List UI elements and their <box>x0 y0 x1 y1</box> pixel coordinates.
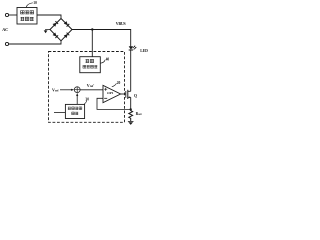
wire bus tap to shutdown box <box>91 30 93 57</box>
svg-text:AC: AC <box>1 27 8 32</box>
svg-text:10: 10 <box>33 1 37 5</box>
dimmer text 可控硅 <box>21 11 34 14</box>
svg-text:Rset: Rset <box>136 112 142 116</box>
svg-text:VBUS: VBUS <box>116 22 126 26</box>
wire AC bottom to bridge bottom <box>9 41 61 44</box>
diode D3 bottom-left <box>53 32 59 38</box>
transistor Q <box>126 90 131 99</box>
LED arrows <box>133 46 137 50</box>
terminal AC bottom <box>5 42 8 45</box>
wire Vref arrow <box>60 89 74 91</box>
diode D4 bottom-right <box>64 33 70 39</box>
leader 30 <box>84 101 86 104</box>
wire LED to drain <box>130 50 132 91</box>
svg-text:Vref: Vref <box>52 87 59 92</box>
wire comp arrow up <box>76 93 78 105</box>
svg-text:Vref′: Vref′ <box>87 83 95 88</box>
wire bridge minus stub <box>46 29 50 32</box>
wire source to sense node <box>130 97 132 111</box>
svg-text:LED: LED <box>140 49 148 53</box>
wire opamp out to gate <box>121 93 126 95</box>
opamp minus <box>104 97 107 99</box>
node sense <box>130 108 132 110</box>
svg-text:40: 40 <box>106 57 110 61</box>
wire VBUS bus <box>72 30 131 47</box>
comp text 温度补偿 <box>68 107 82 110</box>
op-amp OP1 <box>103 85 121 102</box>
leader 10 <box>26 3 33 7</box>
dimmer box U10 <box>17 8 37 25</box>
svg-text:OP1: OP1 <box>107 91 114 95</box>
dashed IC box 20 <box>49 52 125 123</box>
wire sum to opamp <box>80 89 103 91</box>
dimmer text 调光器 <box>21 17 34 20</box>
wire feedback to minus input <box>97 98 131 109</box>
LED D5 <box>129 46 133 50</box>
summing node <box>74 87 80 93</box>
ground main <box>128 121 134 125</box>
bridge rectifier diamond <box>50 19 72 41</box>
wire AC top to dimmer <box>9 14 17 16</box>
node bus tap <box>91 28 93 30</box>
svg-text:30: 30 <box>85 97 89 101</box>
ground bridge <box>44 30 48 33</box>
diode D2 top-right <box>64 21 70 27</box>
leader 20 <box>112 83 117 86</box>
comp box 30 <box>65 104 84 118</box>
comp text 电路 <box>72 112 79 115</box>
opamp plus <box>104 88 107 91</box>
wire comp input <box>54 111 65 113</box>
svg-text:Q: Q <box>134 93 137 98</box>
wire dimmer to bridge top <box>37 15 61 19</box>
shutdown text 关断 <box>86 59 94 62</box>
resistor Rset <box>129 111 133 122</box>
shutdown text 控制电路 <box>83 65 97 68</box>
svg-text:20: 20 <box>117 81 121 85</box>
diode D1 top-left <box>53 21 59 27</box>
terminal AC top <box>5 13 8 16</box>
shutdown control box 40 <box>80 57 101 73</box>
leader 40 <box>101 60 106 63</box>
